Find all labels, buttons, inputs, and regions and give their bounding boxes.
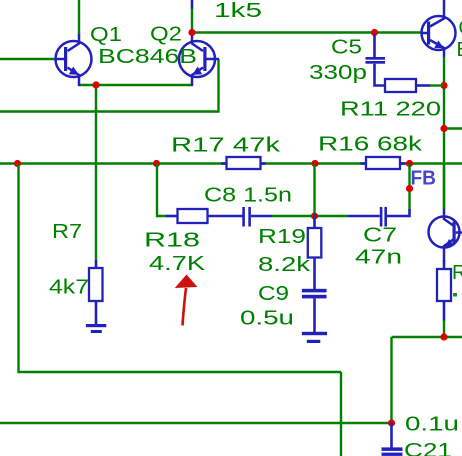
wire R7 drop from emitter junction [95, 85, 97, 261]
svg-text:R18: R18 [144, 230, 200, 252]
wire main bus y=163.5 [0, 162, 462, 164]
svg-text:Q1: Q1 [90, 24, 122, 46]
ground (R7) [86, 324, 106, 333]
svg-text:Q: Q [459, 17, 462, 39]
capacitor C8 [242, 207, 272, 227]
resistor R11 [385, 79, 444, 92]
svg-text:BC846B: BC846B [98, 46, 197, 68]
junction main bus / R19 branch [311, 160, 318, 167]
svg-text:R: R [452, 262, 462, 284]
wire Q1 base from left edge [0, 58, 56, 60]
wire FB node drop x=409.5 [408, 164, 410, 211]
annotation arrow pointing at 4.7K [175, 275, 198, 326]
wire Q1 collector from top edge [78, 0, 80, 35]
wire emitter bus y=85 [78, 84, 193, 86]
junction main bus / left drop [14, 160, 21, 167]
wire left drop x=18.5 down and across y=372 [19, 164, 342, 373]
svg-text:Q2: Q2 [150, 24, 182, 46]
wire top bus y=32.5 to right transistor base [192, 31, 422, 33]
svg-text:B: B [457, 39, 462, 61]
resistor R17 [221, 157, 266, 169]
svg-text:C5: C5 [331, 37, 362, 59]
svg-text:0.1u: 0.1u [405, 414, 459, 436]
svg-text:FB: FB [411, 168, 437, 190]
svg-text:R16 68k: R16 68k [318, 134, 423, 156]
junction branch y=128.5 [440, 125, 447, 132]
svg-text:C7: C7 [363, 225, 397, 247]
wire lower base bus y=111.5 [0, 110, 220, 112]
resistor R16 [361, 157, 406, 169]
resistor R18 [166, 209, 243, 223]
svg-text:330p: 330p [309, 62, 367, 84]
svg-text:R11 220: R11 220 [340, 99, 441, 121]
wire vertical x=341 to bottom edge [340, 372, 342, 456]
ground (C9) [302, 332, 327, 343]
resistor right edge (label cut off) [437, 260, 451, 321]
svg-text:4k7: 4k7 [49, 277, 89, 299]
svg-text:4.7K: 4.7K [149, 253, 206, 275]
transistor top-right (label cut off) [422, 0, 456, 58]
transistor Q2 [179, 36, 219, 87]
wire bottom-right collector link [443, 164, 445, 210]
junction Q2 collector node [188, 29, 195, 36]
label right edge resistor value (cut) [453, 293, 457, 297]
junction C5 tap on top bus [371, 29, 378, 36]
resistor R7 [89, 260, 103, 324]
resistor lead 1k5 (cut off at top edge) [191, 0, 194, 9]
svg-text:8.2k: 8.2k [258, 254, 311, 276]
wire C8 to R19 node and on to C7 [272, 215, 348, 217]
svg-text:R17 47k: R17 47k [171, 135, 281, 157]
svg-text:C21: C21 [404, 440, 452, 456]
svg-text:C8 1.5n: C8 1.5n [204, 185, 292, 207]
capacitor C7 [348, 207, 410, 227]
junction R19 top node [311, 212, 318, 219]
wire R19 branch from main bus [313, 164, 315, 217]
junction main bus / R18 branch [153, 160, 160, 167]
junction emitters/R7 node [92, 81, 99, 88]
svg-text:R7: R7 [52, 221, 82, 243]
capacitor C21 [382, 423, 403, 456]
svg-text:1k5: 1k5 [214, 0, 262, 22]
capacitor C9 [302, 289, 327, 332]
junction emitter resistor / bus [440, 333, 447, 340]
svg-text:0.5u: 0.5u [240, 308, 294, 330]
wire branch y=128.5 to right edge [444, 127, 462, 129]
wire right vertical x=444 emitter chain [443, 57, 445, 208]
junction main bus / FB node [406, 160, 413, 167]
wire 1k5 to Q2 collector node [191, 8, 193, 31]
transistor Q1 [55, 34, 92, 86]
svg-text:C9: C9 [258, 283, 289, 305]
wire Q2 base drop [217, 59, 219, 113]
svg-text:47n: 47n [355, 247, 402, 269]
wire bottom bus y=423 [0, 422, 392, 424]
junction R11 tap [440, 82, 447, 89]
wire corner x=391.5 down to C21 node [390, 337, 392, 423]
junction FB attachment [406, 185, 413, 192]
capacitor C5 [366, 34, 386, 86]
wire R18 branch drop x=155.5 [157, 164, 168, 217]
svg-text:R19: R19 [258, 226, 306, 248]
junction C21 node [388, 419, 395, 426]
wire emitter resistor to bottom bus [443, 320, 445, 338]
transistor bottom-right (label cut off) [429, 208, 462, 263]
resistor R19 [308, 214, 322, 289]
wire bus y=337 [392, 336, 462, 338]
